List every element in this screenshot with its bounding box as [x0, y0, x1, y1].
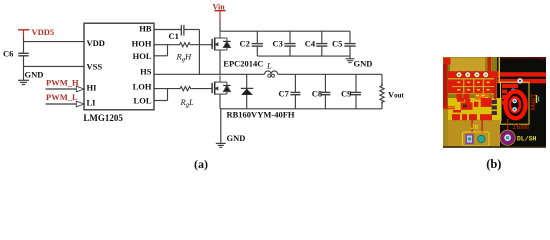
svg-text:LOH: LOH	[133, 82, 152, 92]
svg-text:VDD: VDD	[87, 38, 105, 48]
svg-text:HOH: HOH	[132, 39, 152, 49]
svg-text:GND: GND	[25, 70, 44, 80]
svg-text:C5: C5	[332, 38, 342, 48]
svg-text:J6: J6	[471, 124, 479, 131]
svg-text:HS: HS	[140, 66, 152, 76]
svg-text:(b): (b)	[486, 157, 501, 171]
svg-text:PWM_H: PWM_H	[46, 77, 79, 87]
svg-text:VDD5: VDD5	[32, 27, 55, 37]
svg-text:16mm: 16mm	[512, 124, 529, 132]
svg-text:LOL: LOL	[134, 96, 152, 106]
svg-text:C1: C1	[169, 31, 179, 41]
svg-text:HOL: HOL	[133, 51, 152, 61]
svg-text:GND: GND	[354, 59, 373, 69]
svg-text:(a): (a)	[194, 157, 208, 171]
svg-text:C6: C6	[3, 49, 13, 59]
svg-text:HB: HB	[139, 23, 152, 33]
svg-text:DL/SH: DL/SH	[517, 136, 537, 143]
svg-text:GND: GND	[227, 133, 246, 143]
svg-text:RgH: RgH	[176, 52, 192, 64]
svg-text:10mm: 10mm	[528, 94, 536, 111]
svg-text:EPC2014C: EPC2014C	[223, 58, 263, 68]
svg-text:LMG1205: LMG1205	[83, 113, 123, 123]
svg-text:Vout: Vout	[388, 90, 405, 100]
svg-text:PWM_L: PWM_L	[46, 92, 78, 102]
svg-text:L: L	[266, 61, 272, 71]
svg-text:VSS: VSS	[87, 62, 103, 72]
svg-text:Vin: Vin	[213, 2, 226, 11]
svg-text:C8: C8	[312, 88, 322, 98]
svg-text:C4: C4	[305, 38, 316, 48]
svg-text:C3: C3	[273, 38, 283, 48]
svg-text:C9: C9	[341, 88, 351, 98]
svg-text:LI: LI	[87, 97, 97, 107]
svg-text:C7: C7	[279, 88, 290, 98]
svg-text:HI: HI	[87, 83, 98, 93]
svg-text:RB160VYM-40FH: RB160VYM-40FH	[227, 110, 295, 120]
svg-text:C2: C2	[240, 38, 250, 48]
svg-text:RgL: RgL	[180, 97, 194, 109]
